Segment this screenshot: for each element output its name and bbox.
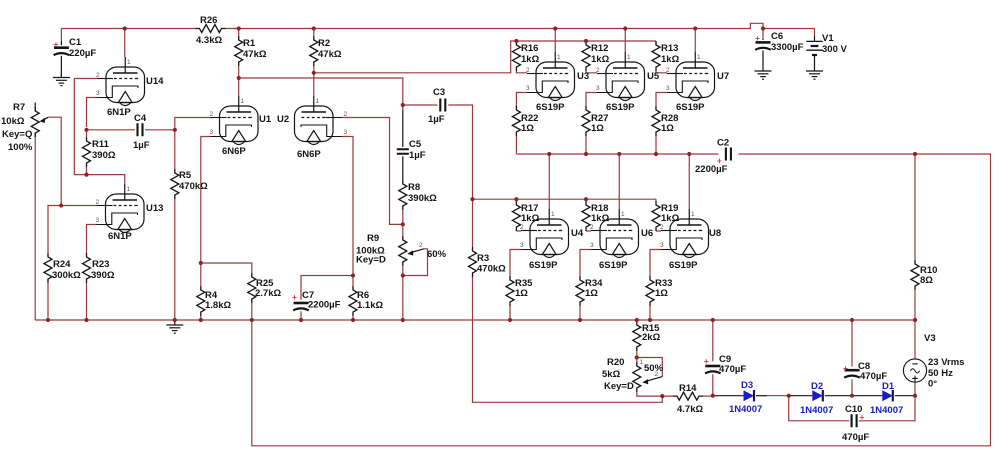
svg-text:1Ω: 1Ω: [661, 123, 674, 134]
resistor R16: [512, 41, 520, 71]
wire node to U13 plate: [87, 175, 125, 184]
svg-text:1Ω: 1Ω: [515, 288, 528, 299]
wire R27 bottom: [585, 136, 587, 154]
svg-text:1: 1: [557, 54, 561, 61]
capacitor C7: [293, 303, 309, 310]
svg-text:47kΩ: 47kΩ: [243, 49, 267, 60]
svg-text:6S19P: 6S19P: [529, 260, 558, 271]
svg-text:V1: V1: [822, 33, 834, 44]
wire node to D2: [789, 395, 813, 397]
wire R22 bottom: [515, 136, 517, 154]
svg-text:6S19P: 6S19P: [599, 260, 628, 271]
wire C10 right to V3 node: [859, 396, 915, 421]
svg-text:V3: V3: [924, 333, 936, 344]
svg-text:60%: 60%: [427, 249, 447, 260]
wire R2 top: [313, 29, 315, 37]
wire U3 pin1: [554, 29, 556, 53]
svg-text:470kΩ: 470kΩ: [477, 264, 506, 275]
wire C8 bottom: [851, 379, 853, 395]
capacitor C6: [762, 39, 764, 66]
wire R35 bottom: [509, 306, 511, 320]
svg-text:R26: R26: [200, 15, 217, 26]
svg-text:3300µF: 3300µF: [771, 42, 804, 53]
svg-text:1: 1: [551, 211, 555, 218]
op-amp U4 triode 6S19P: [521, 209, 569, 258]
wire C1 top lead: [60, 29, 62, 42]
wire C4 node down to R5: [174, 130, 176, 169]
resistor R2: [310, 36, 318, 66]
wire U3 cathode to R22: [516, 93, 527, 107]
wire R10 bottom: [914, 290, 916, 320]
svg-text:300kΩ: 300kΩ: [52, 270, 81, 281]
svg-text:1µF: 1µF: [409, 150, 426, 161]
svg-text:R8: R8: [408, 182, 420, 193]
wire C9 bottom: [712, 374, 714, 396]
capacitor C10: [852, 414, 857, 427]
svg-text:R9: R9: [367, 233, 379, 244]
resistor R25: [248, 273, 256, 303]
wire R14 right: [703, 395, 713, 397]
wire C8 node to D1: [852, 395, 882, 397]
svg-text:+: +: [843, 363, 848, 373]
wire C4 node up to U1 grid: [175, 118, 211, 130]
wire U4 cathode to R35: [510, 250, 521, 277]
resistor R15: [633, 321, 641, 351]
svg-text:+: +: [54, 39, 59, 49]
wire R11 bottom to node: [86, 163, 88, 175]
svg-text:3: 3: [520, 242, 524, 249]
wire U13 grid: [61, 205, 96, 207]
resistor R1: [235, 36, 243, 66]
svg-text:U8: U8: [709, 228, 721, 239]
svg-text:R13: R13: [661, 43, 678, 54]
svg-text:3: 3: [660, 242, 664, 249]
svg-text:390kΩ: 390kΩ: [408, 193, 437, 204]
wire C8 top: [851, 320, 853, 367]
svg-text:R16: R16: [521, 43, 538, 54]
wire C5 R8 node lead: [402, 105, 404, 110]
svg-text:+: +: [755, 33, 760, 43]
wire R10 top: [914, 154, 916, 260]
wire node to R25: [201, 263, 252, 273]
wire U13 cathode to R23: [87, 225, 97, 254]
wire C3 right to lower grid bus: [448, 105, 472, 199]
ground at output rail: [166, 320, 183, 333]
potentiometer R9: [399, 236, 407, 266]
wire R9 top: [402, 224, 404, 236]
wire R20 wiper loop: [637, 358, 663, 377]
wire lower grid bus: [473, 198, 657, 200]
svg-text:5kΩ: 5kΩ: [602, 369, 621, 380]
resistor R14: [673, 392, 703, 400]
resistor R35: [506, 276, 514, 306]
svg-text:1: 1: [316, 98, 320, 105]
wire node R1 to C3: [239, 78, 403, 105]
svg-text:6N6P: 6N6P: [297, 149, 321, 160]
wire R2 node to grid bus of U3 U5 U7: [314, 41, 656, 73]
resistor R17: [512, 201, 520, 231]
wire C6 top lead: [762, 29, 764, 40]
svg-text:1kΩ: 1kΩ: [521, 213, 540, 224]
wire R4 top: [200, 263, 202, 286]
svg-text:1: 1: [691, 211, 695, 218]
capacitor C1: [60, 41, 62, 78]
resistor R3: [469, 247, 477, 277]
resistor R19: [652, 201, 660, 231]
svg-text:1: 1: [640, 359, 644, 366]
svg-text:Key=D: Key=D: [356, 255, 386, 266]
wire U4 pin1: [548, 154, 550, 209]
svg-text:2: 2: [210, 111, 214, 118]
wire R25 bottom: [251, 303, 253, 320]
capacitor C3: [440, 99, 445, 112]
wire R33 bottom: [649, 306, 651, 320]
wire R8 bottom to node: [402, 210, 404, 224]
svg-text:1Ω: 1Ω: [591, 123, 604, 134]
wire C9 node to D3: [713, 395, 744, 397]
op-amp U2 triode 6N6P mirrored: [295, 96, 343, 145]
wire U2 grid to R8 node: [342, 118, 403, 225]
op-amp U6 triode 6S19P: [591, 209, 639, 258]
svg-text:1N4007: 1N4007: [729, 404, 762, 415]
wire V3 bottom: [914, 382, 916, 395]
wire U14 grid to U13 plate node: [74, 79, 97, 175]
wire U7 cathode to R28: [656, 93, 667, 107]
svg-text:390Ω: 390Ω: [91, 270, 115, 281]
wire C2 right to bottom loop: [252, 154, 991, 446]
svg-text:U4: U4: [571, 228, 584, 239]
wire R9 node to ground rail: [402, 276, 404, 321]
svg-text:1kΩ: 1kΩ: [591, 54, 610, 65]
op-amp U14 triode 6N1P: [97, 57, 145, 106]
wire D1 to V3 node: [895, 395, 915, 397]
svg-text:R24: R24: [53, 259, 71, 270]
wire R9 bottom node: [402, 266, 404, 276]
svg-text:6S19P: 6S19P: [669, 260, 698, 271]
ground below C1: [53, 73, 70, 86]
wire R7 wiper to U13 grid: [48, 117, 61, 205]
svg-text:R2: R2: [318, 38, 330, 49]
svg-text:23 Vrms: 23 Vrms: [928, 357, 964, 368]
svg-text:50%: 50%: [644, 363, 664, 374]
wire R17 leads: [516, 199, 521, 231]
svg-text:470µF: 470µF: [842, 432, 869, 443]
svg-text:3: 3: [666, 85, 670, 92]
wire U8 pin1: [688, 154, 690, 209]
resistor R5: [171, 169, 179, 199]
svg-text:1.8kΩ: 1.8kΩ: [205, 300, 231, 311]
svg-text:R7: R7: [13, 102, 25, 113]
svg-text:10kΩ: 10kΩ: [1, 116, 25, 127]
svg-text:D3: D3: [741, 380, 753, 391]
svg-text:R3: R3: [477, 253, 489, 264]
wire U6 cathode to R34: [580, 250, 591, 277]
svg-text:3: 3: [96, 90, 100, 97]
wire C4 left node to R11: [86, 130, 88, 137]
wire U8 cathode to R33: [650, 250, 661, 277]
resistor R12: [582, 41, 590, 71]
ground below C6: [755, 66, 772, 79]
svg-text:1N4007: 1N4007: [870, 405, 903, 416]
resistor R11: [83, 137, 91, 167]
wire R18 leads: [586, 199, 591, 231]
svg-text:1: 1: [697, 54, 701, 61]
resistor R33: [646, 276, 654, 306]
svg-text:300 V: 300 V: [822, 44, 847, 55]
svg-text:1.1kΩ: 1.1kΩ: [357, 300, 383, 311]
svg-text:1: 1: [627, 54, 631, 61]
svg-text:C1: C1: [69, 37, 82, 48]
capacitor C5: [402, 110, 404, 180]
svg-text:C10: C10: [845, 404, 862, 415]
diode D3: [744, 390, 755, 401]
svg-text:R1: R1: [243, 38, 256, 49]
wire R23 bottom: [86, 283, 88, 320]
resistor R4: [197, 286, 205, 316]
svg-text:390Ω: 390Ω: [92, 150, 116, 161]
svg-text:470µF: 470µF: [719, 364, 746, 375]
svg-text:3: 3: [596, 85, 600, 92]
svg-text:R20: R20: [607, 357, 624, 368]
wire U6 pin1: [618, 154, 620, 209]
svg-text:U3: U3: [577, 71, 589, 82]
svg-text:6N6P: 6N6P: [222, 146, 246, 157]
wire mid rail to C2: [516, 153, 718, 155]
wire node to C7: [301, 276, 353, 300]
svg-text:2: 2: [590, 224, 594, 231]
resistor R6: [349, 286, 357, 316]
svg-text:Key=Q: Key=Q: [2, 129, 32, 140]
wire D2 to C8 node: [825, 395, 852, 397]
wire U7 pin1: [694, 29, 696, 53]
wire R3 bottom feedback to bridge: [473, 277, 663, 402]
wire R15 top: [636, 320, 638, 321]
wire R7 bottom to ground rail: [34, 137, 36, 320]
svg-text:2: 2: [96, 72, 100, 79]
op-amp U13 triode 6N1P: [97, 184, 145, 233]
svg-text:2: 2: [526, 67, 530, 74]
wire R20 top: [636, 358, 638, 363]
svg-text:+: +: [292, 292, 297, 302]
svg-text:1N4007: 1N4007: [800, 405, 833, 416]
wire C4 node to left plate: [87, 129, 136, 131]
svg-text:1µF: 1µF: [428, 114, 445, 125]
svg-text:4.7kΩ: 4.7kΩ: [677, 404, 703, 415]
svg-text:47kΩ: 47kΩ: [318, 49, 342, 60]
capacitor C8: [844, 370, 860, 377]
wire R1 bottom to node: [238, 66, 240, 78]
svg-text:2: 2: [344, 111, 348, 118]
svg-text:1µF: 1µF: [133, 140, 150, 151]
svg-text:6S19P: 6S19P: [536, 102, 565, 113]
wire top rail right of R26 with jog to V1: [225, 23, 815, 28]
svg-text:1: 1: [127, 59, 131, 66]
diode D1: [882, 390, 893, 401]
svg-text:2kΩ: 2kΩ: [642, 332, 661, 343]
svg-text:100%: 100%: [8, 142, 33, 153]
svg-text:U6: U6: [641, 228, 653, 239]
svg-text:+: +: [704, 356, 709, 366]
wire R20 bottom: [637, 392, 673, 396]
wire R2 bottom node: [313, 66, 315, 73]
potentiometer R20: [633, 362, 641, 392]
resistor R24: [44, 253, 52, 283]
wire R3 top: [472, 199, 474, 247]
capacitor C4: [138, 123, 143, 136]
svg-text:1Ω: 1Ω: [655, 288, 668, 299]
wire R5 bottom to ground rail: [174, 199, 176, 320]
wire U14 plate pin1: [124, 29, 126, 58]
svg-text:1: 1: [127, 186, 131, 193]
wire R13 leads: [656, 41, 667, 73]
svg-text:3: 3: [96, 217, 100, 224]
svg-text:1kΩ: 1kΩ: [521, 54, 540, 65]
wire C4 right plate to node: [145, 129, 175, 131]
svg-text:2: 2: [419, 242, 423, 249]
svg-text:1: 1: [241, 98, 245, 105]
svg-text:1: 1: [621, 211, 625, 218]
svg-text:470kΩ: 470kΩ: [179, 181, 208, 192]
svg-text:8Ω: 8Ω: [920, 275, 933, 286]
wire C7 bottom: [300, 311, 302, 320]
svg-text:C3: C3: [433, 87, 445, 98]
svg-text:2: 2: [96, 199, 100, 206]
wire U5 pin1: [624, 29, 626, 53]
svg-text:U7: U7: [717, 71, 729, 82]
wire U13 grid node to R24: [48, 206, 61, 254]
wire node down to C10: [789, 396, 850, 421]
svg-text:220µF: 220µF: [69, 48, 96, 59]
svg-text:R11: R11: [92, 139, 110, 150]
svg-text:3: 3: [210, 129, 214, 136]
wire R34 bottom: [579, 306, 581, 320]
wire R9 wiper loop: [403, 249, 428, 276]
resistor R27: [582, 106, 590, 136]
op-amp U3 triode 6S19P: [527, 52, 575, 101]
svg-text:6N1P: 6N1P: [108, 231, 132, 242]
svg-text:U5: U5: [647, 71, 660, 82]
wire U1 cathode down: [201, 137, 211, 264]
wire C9 top: [712, 320, 714, 361]
battery V1: [806, 36, 822, 66]
wire C3 node left: [403, 104, 438, 106]
ground below V1: [806, 66, 823, 79]
wire R6 bottom: [352, 316, 354, 320]
svg-text:C5: C5: [409, 139, 422, 150]
wire R6 top: [352, 276, 354, 287]
svg-text:1Ω: 1Ω: [521, 123, 534, 134]
svg-text:4.3kΩ: 4.3kΩ: [196, 35, 222, 46]
svg-text:D2: D2: [811, 381, 823, 392]
wire ground rail y320: [35, 319, 915, 321]
diode D2: [812, 390, 823, 401]
wire U2 plate pin1: [313, 73, 315, 96]
svg-text:R12: R12: [591, 43, 608, 54]
capacitor C9: [705, 366, 721, 373]
wire R15 bottom node: [636, 351, 638, 358]
wire V3 top: [914, 320, 916, 359]
wire U2 cathode down: [342, 137, 353, 276]
svg-text:2.7kΩ: 2.7kΩ: [255, 288, 281, 299]
capacitor C2: [726, 148, 731, 161]
svg-text:2: 2: [520, 224, 524, 231]
svg-text:R14: R14: [679, 383, 697, 394]
svg-text:2: 2: [596, 67, 600, 74]
wire R1 top: [238, 29, 240, 37]
resistor R34: [576, 276, 584, 306]
resistor R23: [83, 253, 91, 283]
resistor R18: [582, 201, 590, 231]
svg-text:D1: D1: [882, 381, 895, 392]
wire V1 top lead: [814, 29, 816, 37]
svg-text:6S19P: 6S19P: [606, 102, 635, 113]
resistor R26: [196, 25, 226, 33]
svg-text:6N1P: 6N1P: [107, 107, 131, 118]
AC source V3: [903, 359, 926, 382]
wire R19 leads: [656, 199, 661, 231]
resistor R10: [911, 260, 919, 290]
svg-text:0°: 0°: [928, 379, 937, 390]
wire U14 cathode to C4 node: [87, 98, 98, 128]
op-amp U7 triode 6S19P: [667, 52, 715, 101]
potentiometer R7: [34, 103, 36, 112]
svg-text:R23: R23: [92, 259, 109, 270]
op-amp U5 triode 6S19P: [597, 52, 645, 101]
resistor R8: [399, 180, 407, 210]
wire R12 leads: [586, 41, 597, 73]
wire R24 bottom: [47, 283, 49, 320]
svg-text:U14: U14: [146, 76, 164, 87]
svg-text:2: 2: [666, 67, 670, 74]
svg-text:U2: U2: [277, 114, 289, 125]
svg-text:1kΩ: 1kΩ: [661, 213, 680, 224]
resistor R28: [652, 106, 660, 136]
wire R28 bottom: [655, 136, 657, 154]
svg-text:1Ω: 1Ω: [585, 288, 598, 299]
svg-text:Key=D: Key=D: [604, 381, 634, 392]
svg-text:1kΩ: 1kΩ: [661, 54, 680, 65]
resistor R13: [652, 41, 660, 71]
svg-text:U13: U13: [146, 203, 163, 214]
svg-text:2: 2: [660, 224, 664, 231]
resistor R22: [512, 106, 520, 136]
wire R4 bottom: [200, 316, 202, 320]
svg-text:R5: R5: [179, 170, 192, 181]
svg-text:C2: C2: [717, 138, 729, 149]
op-amp U8 triode 6S19P: [661, 209, 709, 258]
wire U1 plate pin1: [238, 78, 240, 96]
wire top B+ rail: [61, 28, 196, 30]
wire D3 to node: [756, 395, 767, 397]
svg-text:U1: U1: [259, 114, 272, 125]
svg-text:3: 3: [526, 85, 530, 92]
svg-text:6S19P: 6S19P: [676, 102, 705, 113]
svg-text:C6: C6: [771, 31, 783, 42]
wire R16 leads: [516, 41, 527, 73]
svg-text:3: 3: [590, 242, 594, 249]
op-amp U1 triode 6N6P: [211, 96, 259, 145]
svg-text:1kΩ: 1kΩ: [591, 213, 610, 224]
wire U5 cathode to R27: [586, 93, 597, 107]
svg-text:2200µF: 2200µF: [695, 164, 728, 175]
svg-text:C4: C4: [134, 113, 147, 124]
svg-text:2200µF: 2200µF: [308, 300, 341, 311]
svg-text:3: 3: [344, 129, 348, 136]
svg-text:50 Hz: 50 Hz: [928, 368, 953, 379]
